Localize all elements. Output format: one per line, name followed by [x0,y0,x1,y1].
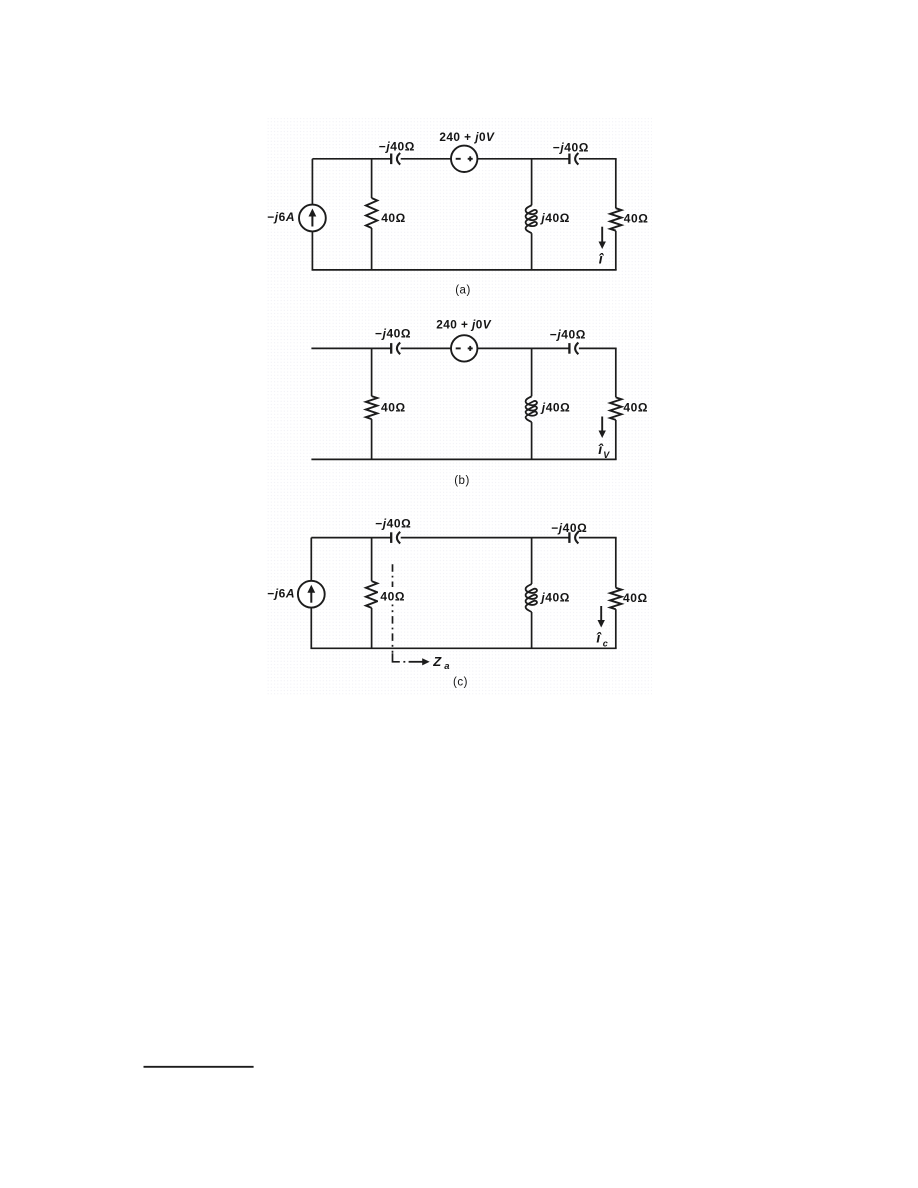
svg-text:40Ω: 40Ω [623,401,648,415]
svg-text:40Ω: 40Ω [381,211,406,225]
current source -j6A (a) left branch [299,159,326,270]
inductor j40ohm (c) [526,538,537,649]
caption (b) [454,475,470,487]
wire (b) bottom rail with left stub [311,458,616,460]
label 240 + j0V (b) [436,318,492,332]
capacitor -j40ohm (a) right, series in top wire [569,153,578,165]
capacitor -j40ohm (c) left [391,532,400,544]
wire from (a) right capacitor to top-right corner [579,158,617,160]
resistor 40ohm (a) shunt branch [366,159,377,270]
label -j40ohm for (c) left capacitor [375,516,411,530]
label 40ohm (c) right resistor [623,591,648,605]
current arrow I (a) [599,227,606,249]
wire from (b) left capacitor to voltage source [401,347,451,349]
footnote rule [144,1066,254,1068]
svg-text:(c): (c) [453,677,468,689]
svg-text:40Ω: 40Ω [381,400,406,414]
label -j6A (c) [267,586,295,600]
current source -j6A (c) left branch [298,538,325,649]
svg-text:−j6A: −j6A [267,210,295,224]
svg-text:40Ω: 40Ω [624,211,649,225]
svg-text:(b): (b) [454,475,470,487]
svg-text:a: a [444,661,450,672]
wire from (c) left capacitor to right capacitor [401,537,570,539]
svg-text:−j40Ω: −j40Ω [375,326,411,340]
current arrow Iv (b) [599,417,606,439]
svg-text:−j40Ω: −j40Ω [550,327,586,341]
wire from (c) right capacitor to top-right corner [579,537,617,539]
wire from (b) voltage source to node above inductor [477,347,569,349]
label I-hat (a) [599,250,605,266]
svg-text:Z: Z [432,654,442,669]
label -j40ohm for (b) left capacitor [375,326,411,340]
svg-text:c: c [603,638,609,648]
label 40ohm (c) shunt resistor [378,587,406,605]
svg-text:−j40Ω: −j40Ω [553,141,589,155]
wire (b) top-left stub to capacitor C1 [311,347,391,349]
svg-text:(a): (a) [455,284,471,296]
label j40ohm (b) inductor [540,401,571,415]
resistor 40ohm (b) right branch [610,348,621,459]
svg-text:−j40Ω: −j40Ω [375,516,411,530]
svg-text:V: V [603,450,610,460]
svg-text:40Ω: 40Ω [623,591,648,605]
capacitor -j40ohm (a) left, series in top wire [391,153,400,165]
label I-hat-C (c) [596,630,608,649]
svg-text:40Ω: 40Ω [380,590,405,604]
svg-text:−j6A: −j6A [267,586,295,600]
current arrow Ic (c) [598,606,605,628]
wire from (a) left capacitor to voltage source [401,158,451,160]
label 240 + j0V (a) [439,130,495,144]
inductor j40ohm (b) [526,348,537,459]
svg-text:−j40Ω: −j40Ω [379,139,415,153]
capacitor -j40ohm (b) left [391,343,400,355]
resistor 40ohm (c) shunt branch [366,538,377,649]
label j40ohm (a) inductor [539,211,570,225]
label I-hat-V (b) [598,441,610,460]
resistor 40ohm (b) shunt branch [366,348,377,459]
resistor 40ohm (a) right branch [610,159,621,270]
label -j40ohm for (a) right capacitor [553,141,589,155]
resistor 40ohm (c) right branch [610,538,621,649]
wire (c) bottom rail [310,647,616,649]
label -j40ohm for (c) right capacitor [551,521,587,535]
label 40ohm (b) right resistor [623,401,648,415]
label 40ohm (b) shunt resistor [381,400,406,414]
caption (c) [453,677,468,689]
label -j40ohm for (b) right capacitor [550,327,586,341]
svg-text:j40Ω: j40Ω [540,401,571,415]
svg-text:j40Ω: j40Ω [539,590,570,604]
wire from (b) right capacitor to top-right corner [579,347,617,349]
svg-text:j40Ω: j40Ω [539,211,570,225]
caption (a) [455,284,471,296]
capacitor -j40ohm (c) right [569,532,578,544]
label 40ohm (a) shunt resistor [381,211,406,225]
voltage source 240 + j0V (b) [451,335,477,361]
wire from (a) voltage source to node above inductor [477,158,569,160]
label -j6A (a) [267,210,295,224]
inductor j40ohm (a) [526,159,537,270]
svg-text:−j40Ω: −j40Ω [551,521,587,535]
capacitor -j40ohm (b) right [569,343,578,355]
label 40ohm (a) right resistor [624,211,649,225]
label -j40ohm for (a) left capacitor [379,139,415,153]
svg-text:240 + j0V: 240 + j0V [436,318,492,332]
circuit (a): wire top segment from current source to capacitor C1 [312,158,391,160]
dash-dot partition line with Za arrow (c) [393,564,430,665]
wire (c) top rail left segment to capacitor C1 [311,537,391,539]
label j40ohm (c) inductor [539,590,570,604]
voltage source 240 + j0V (a) [451,146,477,172]
wire (a) bottom rail [312,269,617,271]
label Za (c) [432,654,450,672]
svg-text:240 + j0V: 240 + j0V [439,130,495,144]
